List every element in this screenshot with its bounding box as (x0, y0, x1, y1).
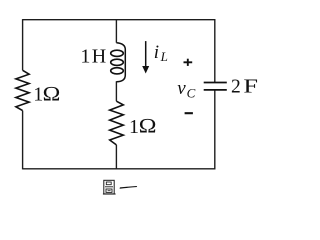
current arrow iL shaft (145, 41, 147, 67)
wire left upper (22, 19, 24, 70)
wire right lower (214, 90, 216, 169)
wire top (23, 19, 216, 21)
resistor middle 1ohm zigzag (110, 101, 124, 145)
svg-text:L: L (160, 49, 168, 64)
caption glyph tu (figure) (103, 180, 116, 194)
svg-text:i: i (154, 42, 159, 63)
svg-text:Ω: Ω (138, 114, 156, 137)
svg-text:v: v (177, 78, 186, 99)
svg-text:2: 2 (231, 76, 241, 97)
wire middle upper lead (115, 19, 117, 43)
minus sign (185, 112, 193, 114)
wire right upper (214, 19, 216, 82)
inductor loop 2 (111, 59, 124, 65)
svg-text:C: C (187, 85, 196, 100)
wire bottom (23, 168, 216, 170)
wire left lower (22, 111, 24, 170)
svg-text:F: F (243, 75, 258, 97)
wire middle lower lead (115, 145, 117, 170)
current arrow iL head (142, 66, 149, 74)
capacitor 2F bottom plate (204, 89, 227, 91)
inductor loop 3 (111, 68, 124, 74)
caption glyph yi (one) (120, 186, 138, 189)
resistor left 1ohm zigzag (16, 70, 29, 110)
svg-text:1H: 1H (80, 46, 107, 68)
plus sign (184, 59, 193, 66)
wire middle between inductor and resistor (115, 81, 117, 101)
inductor loop 1 (111, 50, 124, 56)
capacitor 2F top plate (204, 82, 227, 84)
inductor 1H right-side arc (116, 43, 125, 82)
svg-text:Ω: Ω (42, 82, 60, 105)
